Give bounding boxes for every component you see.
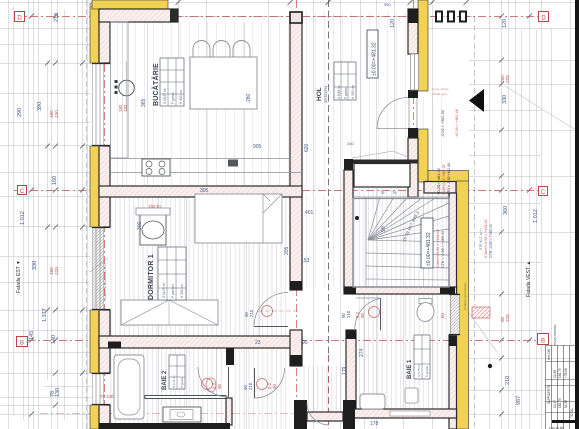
room label hol	[316, 62, 356, 103]
svg-text:401: 401	[305, 210, 314, 216]
svg-text:1.377: 1.377	[42, 308, 48, 322]
svg-text:HOL: HOL	[316, 87, 323, 101]
svg-text:1.012: 1.012	[20, 211, 26, 225]
svg-text:220: 220	[54, 267, 59, 275]
floor hatching	[110, 12, 449, 429]
svg-text:54.36: 54.36	[564, 400, 568, 408]
svg-text:H 300 cm: H 300 cm	[180, 284, 184, 298]
stair dot	[355, 216, 359, 220]
svg-text:1.012: 1.012	[533, 209, 539, 223]
svg-text:90: 90	[302, 340, 308, 346]
red dims doors	[100, 204, 445, 399]
entrance sidelight right-1	[409, 54, 419, 128]
vanity baie2	[163, 407, 201, 422]
top-right twin rects	[436, 12, 466, 22]
svg-text:75: 75	[380, 190, 385, 195]
kitchen island table	[190, 57, 257, 109]
floor stair hall	[353, 170, 449, 287]
svg-text:76: 76	[392, 190, 397, 195]
svg-text:90: 90	[217, 384, 222, 389]
floor baie1	[356, 294, 449, 409]
svg-text:305: 305	[200, 188, 209, 194]
svg-text:H 300 cm: H 300 cm	[179, 90, 183, 104]
svg-text:SPITELPUI: SPITELPUI	[324, 86, 328, 103]
svg-text:SUPRAFETE: SUPRAFETE	[547, 385, 551, 404]
axis 3 vertical in right wall 1	[413, 0, 415, 193]
wall right-2 exterior	[449, 181, 469, 429]
wall baie2 east	[226, 348, 234, 425]
svg-text:±0.00=+481.32: ±0.00=+481.32	[426, 232, 432, 266]
room label baie1	[407, 335, 430, 379]
svg-text:±0.00=+481.32: ±0.00=+481.32	[372, 42, 378, 76]
svg-text:130: 130	[54, 110, 59, 118]
sheet right border	[575, 0, 579, 429]
svg-text:CTN = -0.89 +480.43: CTN = -0.89 +480.43	[447, 163, 451, 195]
room label dormitor1	[148, 247, 186, 300]
svg-text:D: D	[541, 16, 546, 22]
stairs	[353, 197, 449, 287]
room label baie2	[162, 355, 185, 390]
wall bottom left	[99, 423, 230, 429]
svg-text:TOTAL: TOTAL	[570, 408, 574, 418]
titleblock heavy bottom line	[552, 420, 579, 423]
toilet baie1	[415, 299, 435, 323]
svg-text:covor intrare: covor intrare	[432, 87, 449, 91]
svg-text:CTN -0.89 = +480.43: CTN -0.89 = +480.43	[489, 224, 493, 258]
washbasin baie1 bottom	[360, 388, 418, 409]
top edge remnant	[93, 0, 121, 2]
wall dormitor/baie2	[99, 336, 302, 349]
svg-text:B: B	[541, 339, 545, 345]
svg-text:950: 950	[384, 2, 391, 7]
wall bottom middle stubs	[290, 330, 355, 429]
floor strip right of wallA top	[418, 97, 449, 182]
svg-text:14.97: 14.97	[553, 400, 557, 408]
svg-text:Fatada VEST ▲: Fatada VEST ▲	[526, 261, 532, 297]
svg-text:B: B	[20, 341, 24, 347]
svg-text:90: 90	[272, 384, 277, 389]
fatada est	[16, 260, 22, 293]
svg-text:-0.02 = +481.30: -0.02 = +481.30	[441, 110, 445, 137]
hol axis dashed	[328, 0, 330, 355]
floor kitchen	[110, 22, 290, 186]
svg-text:905: 905	[253, 144, 262, 150]
top horizontals	[0, 2, 428, 4]
svg-text:Fatada EST ▼: Fatada EST ▼	[16, 260, 22, 293]
svg-text:24.38: 24.38	[553, 370, 557, 378]
svg-text:330: 330	[32, 261, 38, 270]
svg-text:182.79: 182.79	[558, 368, 562, 378]
door arc corridor	[254, 368, 256, 398]
svg-text:218: 218	[54, 13, 60, 22]
svg-text:P gresie: P gresie	[425, 366, 429, 377]
svg-text:145: 145	[29, 331, 35, 340]
window right-2	[449, 294, 460, 335]
blue dims left col	[17, 13, 61, 397]
svg-text:15x30 gres: 15x30 gres	[432, 92, 447, 96]
svg-text:280: 280	[246, 93, 252, 102]
svg-text:C: C	[541, 190, 546, 196]
svg-text:S 5,75 m²: S 5,75 m²	[417, 364, 421, 377]
dresser dormitor1	[136, 208, 170, 245]
svg-text:+0.00=+481.32: +0.00=+481.32	[436, 167, 441, 195]
svg-text:incalzire pardoseala: incalzire pardoseala	[463, 283, 467, 310]
red hatch legend box	[472, 307, 490, 318]
svg-text:P gresie: P gresie	[344, 87, 348, 99]
kitchen counter vertical	[111, 22, 129, 158]
svg-text:0.16m+/-0.00 = +481.32: 0.16m+/-0.00 = +481.32	[436, 230, 440, 268]
svg-text:130: 130	[55, 388, 61, 397]
window W2 left	[92, 227, 110, 310]
bathtub baie2	[114, 355, 144, 419]
titleblock	[546, 0, 579, 429]
svg-text:P gresie: P gresie	[171, 92, 175, 104]
door arc baie2	[228, 367, 230, 397]
terrain diagonal	[505, 86, 579, 132]
red door symbol circles	[202, 306, 380, 390]
axis B horizontal	[27, 340, 545, 342]
toilet corridor small	[206, 378, 216, 392]
wall A interior (hol west)	[290, 12, 302, 290]
door arc hol entrance	[377, 98, 408, 129]
marker B left lower	[17, 337, 28, 347]
marker D right	[539, 12, 549, 22]
svg-text:DORMITOR 1: DORMITOR 1	[148, 254, 155, 300]
svg-text:90: 90	[360, 313, 365, 318]
window W3 left small	[92, 373, 110, 405]
wardrobe dormitor1	[121, 300, 218, 325]
svg-text:132: 132	[123, 104, 128, 112]
window W1 left	[92, 63, 110, 146]
svg-text:330: 330	[502, 95, 508, 104]
svg-text:0.16m+/-0.00 = +481.32: 0.16m+/-0.00 = +481.32	[484, 220, 488, 258]
room label bucatarie	[151, 58, 184, 106]
svg-text:90: 90	[381, 226, 387, 232]
svg-text:120: 120	[390, 19, 396, 28]
furniture	[111, 12, 494, 426]
level mark stairs	[421, 218, 445, 268]
red dims left col	[49, 110, 59, 275]
svg-text:179: 179	[342, 366, 348, 375]
left dim column verticals	[8, 0, 10, 429]
axis C horizontal	[14, 190, 545, 192]
wall jog horizontal	[424, 171, 469, 194]
svg-text:182.79: 182.79	[558, 398, 562, 408]
kitchen sink circle	[115, 62, 135, 110]
svg-text:C: C	[20, 189, 25, 195]
walls	[90, 0, 469, 429]
axis 1 vertical in left wall	[104, 0, 106, 429]
svg-text:987: 987	[516, 396, 522, 405]
wall stair south	[344, 287, 457, 294]
svg-text:S 4,11 m²: S 4,11 m²	[172, 375, 176, 388]
svg-text:210: 210	[248, 382, 253, 390]
svg-text:390: 390	[37, 102, 43, 111]
level mark hol	[367, 30, 378, 78]
floor baie2	[110, 348, 224, 423]
door arc baie1	[380, 299, 382, 331]
svg-text:150 EI: 150 EI	[148, 204, 161, 209]
svg-text:290: 290	[17, 108, 23, 117]
floor corridor bottom	[234, 348, 290, 429]
svg-text:620: 620	[304, 143, 310, 152]
marker B right	[538, 334, 549, 345]
wall right-1 exterior (hol east)	[408, 0, 428, 197]
svg-text:PLAN PARTER: PLAN PARTER	[553, 324, 557, 345]
fatada vest	[526, 261, 532, 297]
svg-text:B1: B1	[440, 312, 445, 318]
door arc dormitor1	[254, 326, 288, 328]
svg-text:120: 120	[502, 19, 508, 28]
axis 2 vertical in wall A	[296, 0, 298, 429]
closet hall	[352, 151, 410, 195]
marker C right	[539, 187, 548, 197]
marker C left	[18, 186, 27, 196]
svg-text:300: 300	[137, 221, 143, 230]
red level text stairs right	[479, 220, 493, 258]
blue dims right col	[384, 2, 539, 405]
svg-text:140: 140	[51, 335, 57, 344]
svg-text:incalzire in pardoseala (cm): incalzire in pardoseala (cm)	[103, 263, 107, 300]
wall kitchen/dormitor	[99, 186, 302, 197]
svg-text:205: 205	[284, 246, 290, 255]
roof overhang dashed	[178, 16, 474, 18]
svg-text:P parchet: P parchet	[171, 284, 175, 298]
svg-text:P gresie: P gresie	[180, 377, 184, 388]
marker D left	[15, 12, 25, 22]
svg-text:S 6,85 m²: S 6,85 m²	[337, 85, 341, 99]
svg-text:BAIE 2: BAIE 2	[162, 370, 168, 390]
right dim column verticals	[489, 0, 491, 429]
svg-text:240: 240	[347, 141, 354, 146]
svg-text:153: 153	[301, 258, 310, 264]
axis A horizontal partial	[40, 413, 310, 415]
sink red dim	[118, 104, 128, 112]
wall left exterior body	[99, 11, 110, 429]
svg-text:23: 23	[255, 340, 261, 346]
svg-text:274: 274	[359, 348, 365, 357]
floor bottom middle room	[302, 366, 343, 412]
red level text entrance	[432, 87, 459, 137]
wall baie1 south	[346, 409, 457, 418]
wall baie1 west	[346, 330, 356, 409]
floor corridor stairs west	[302, 196, 344, 287]
wall top exterior	[92, 0, 178, 22]
chair arcs top	[193, 41, 250, 57]
svg-text:S 18,87 m²: S 18,87 m²	[163, 88, 167, 104]
black dot right area	[488, 364, 492, 368]
svg-text:160: 160	[52, 176, 58, 185]
axis 3b vertical in right wall 2	[452, 172, 454, 429]
wall stair west	[344, 170, 353, 290]
svg-text:210: 210	[505, 376, 511, 385]
svg-text:178: 178	[370, 421, 379, 427]
wall stair north	[344, 159, 418, 170]
svg-text:H 300 cm: H 300 cm	[351, 85, 355, 99]
kitchen counter band	[111, 159, 302, 177]
svg-text:210: 210	[249, 309, 254, 317]
axis D horizontal	[14, 16, 545, 18]
svg-text:CTN = -0.89 = +480.43: CTN = -0.89 = +480.43	[441, 231, 445, 268]
svg-text:78 130: 78 130	[100, 394, 114, 399]
svg-text:+33.06: +33.06	[564, 368, 568, 378]
bed dormitor1	[195, 194, 282, 243]
svg-text:220: 220	[505, 75, 510, 83]
svg-text:360: 360	[503, 206, 509, 215]
floor hol	[302, 12, 408, 190]
svg-text:365: 365	[141, 98, 147, 107]
svg-text:BUCĂTĂRIE: BUCĂTĂRIE	[151, 63, 160, 106]
svg-text:D: D	[17, 16, 22, 22]
svg-text:STR K17 a (+): STR K17 a (+)	[479, 228, 483, 250]
floor dormitor1	[110, 197, 290, 336]
interior faint verticals	[122, 0, 124, 196]
red dims right col	[500, 75, 510, 322]
svg-text:210: 210	[346, 310, 351, 318]
titleblock frame	[546, 345, 576, 429]
svg-text:0.16+/-0.00 +481.32: 0.16+/-0.00 +481.32	[442, 164, 446, 195]
baie2 shower partition	[145, 396, 226, 399]
entrance triangle	[469, 89, 484, 112]
door arc bottom middle	[307, 403, 329, 425]
titleblock texts	[547, 324, 574, 429]
svg-text:S 11,99 m²: S 11,99 m²	[162, 283, 166, 298]
svg-text:+0.16 = +481.48: +0.16 = +481.48	[455, 109, 459, 137]
blue dims interior	[137, 93, 387, 427]
svg-text:BAIE 1: BAIE 1	[407, 359, 413, 379]
svg-text:Hm LMI: Hm LMI	[547, 349, 551, 360]
level mark right stairs top	[436, 163, 451, 195]
svg-text:220: 220	[505, 314, 510, 322]
wall left exterior yellow insulation	[90, 6, 99, 429]
